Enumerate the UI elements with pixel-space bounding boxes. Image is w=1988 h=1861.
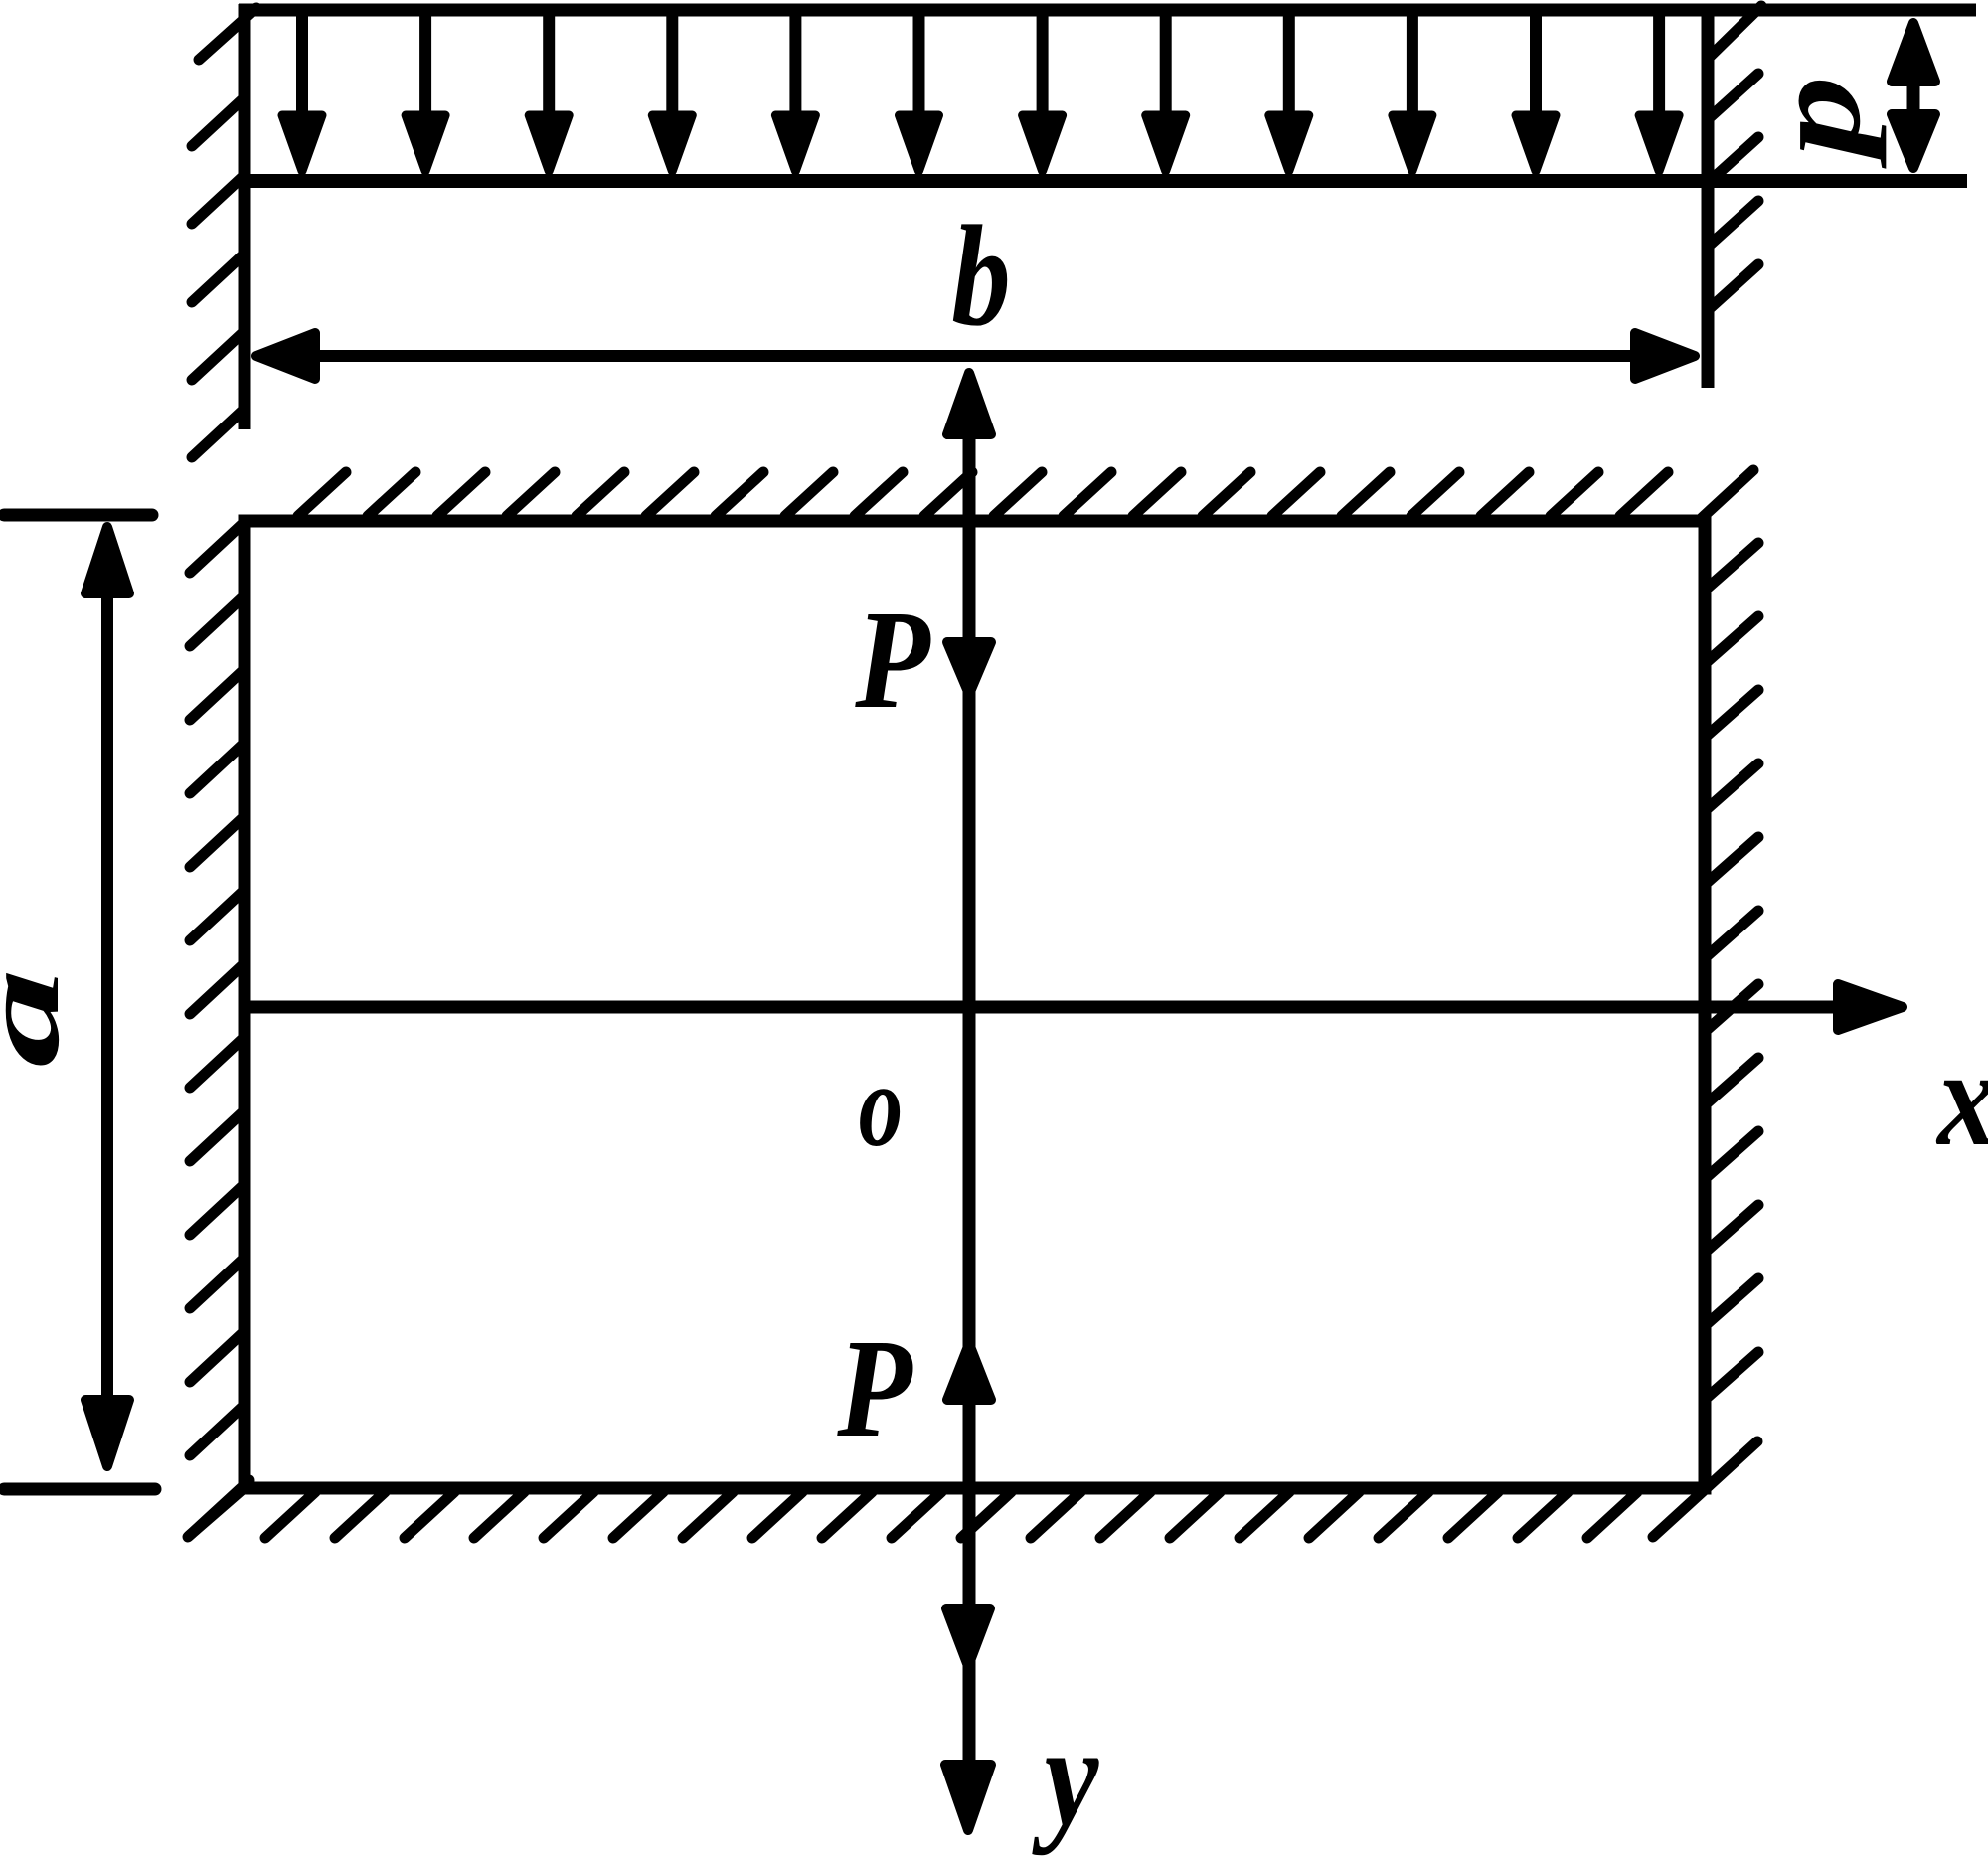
y axis arrowhead below plate: [946, 1608, 990, 1666]
force P arrowhead (bottom, upward): [947, 1344, 991, 1400]
svg-text:p: p: [1745, 76, 1887, 169]
bottom edge hatching: [189, 1441, 1757, 1538]
dimension a bottom tick: [4, 1483, 155, 1496]
beam top line: [239, 4, 1976, 17]
right edge hatching: [1707, 543, 1758, 1398]
plate rectangle: [245, 521, 1705, 1488]
top edge hatching: [298, 470, 1753, 518]
dimension p double arrow: [1907, 80, 1920, 114]
left edge hatching: [188, 521, 249, 1537]
distributed load arrows p: [282, 14, 1679, 171]
right wall hatching (top figure): [1707, 6, 1761, 311]
svg-text:b: b: [951, 196, 1010, 356]
dimension a arrow: [101, 596, 113, 1397]
load base line: [239, 174, 1967, 188]
force P arrowhead (top, downward): [947, 642, 991, 694]
svg-text:o: o: [859, 1039, 903, 1171]
y axis: [963, 429, 976, 1770]
svg-text:P: P: [854, 581, 931, 738]
left support wall (top figure): [239, 4, 251, 429]
x axis: [245, 1001, 1844, 1014]
dimension b arrow: [298, 350, 1650, 362]
svg-text:P: P: [836, 1309, 913, 1466]
left wall hatching (top figure): [192, 8, 256, 457]
svg-text:y: y: [1032, 1697, 1100, 1857]
svg-text:x: x: [1935, 1021, 1988, 1175]
right support wall (top figure): [1702, 4, 1715, 388]
y axis end arrowhead: [945, 1765, 991, 1830]
dimension a top tick: [4, 509, 152, 522]
svg-text:a: a: [0, 968, 82, 1068]
